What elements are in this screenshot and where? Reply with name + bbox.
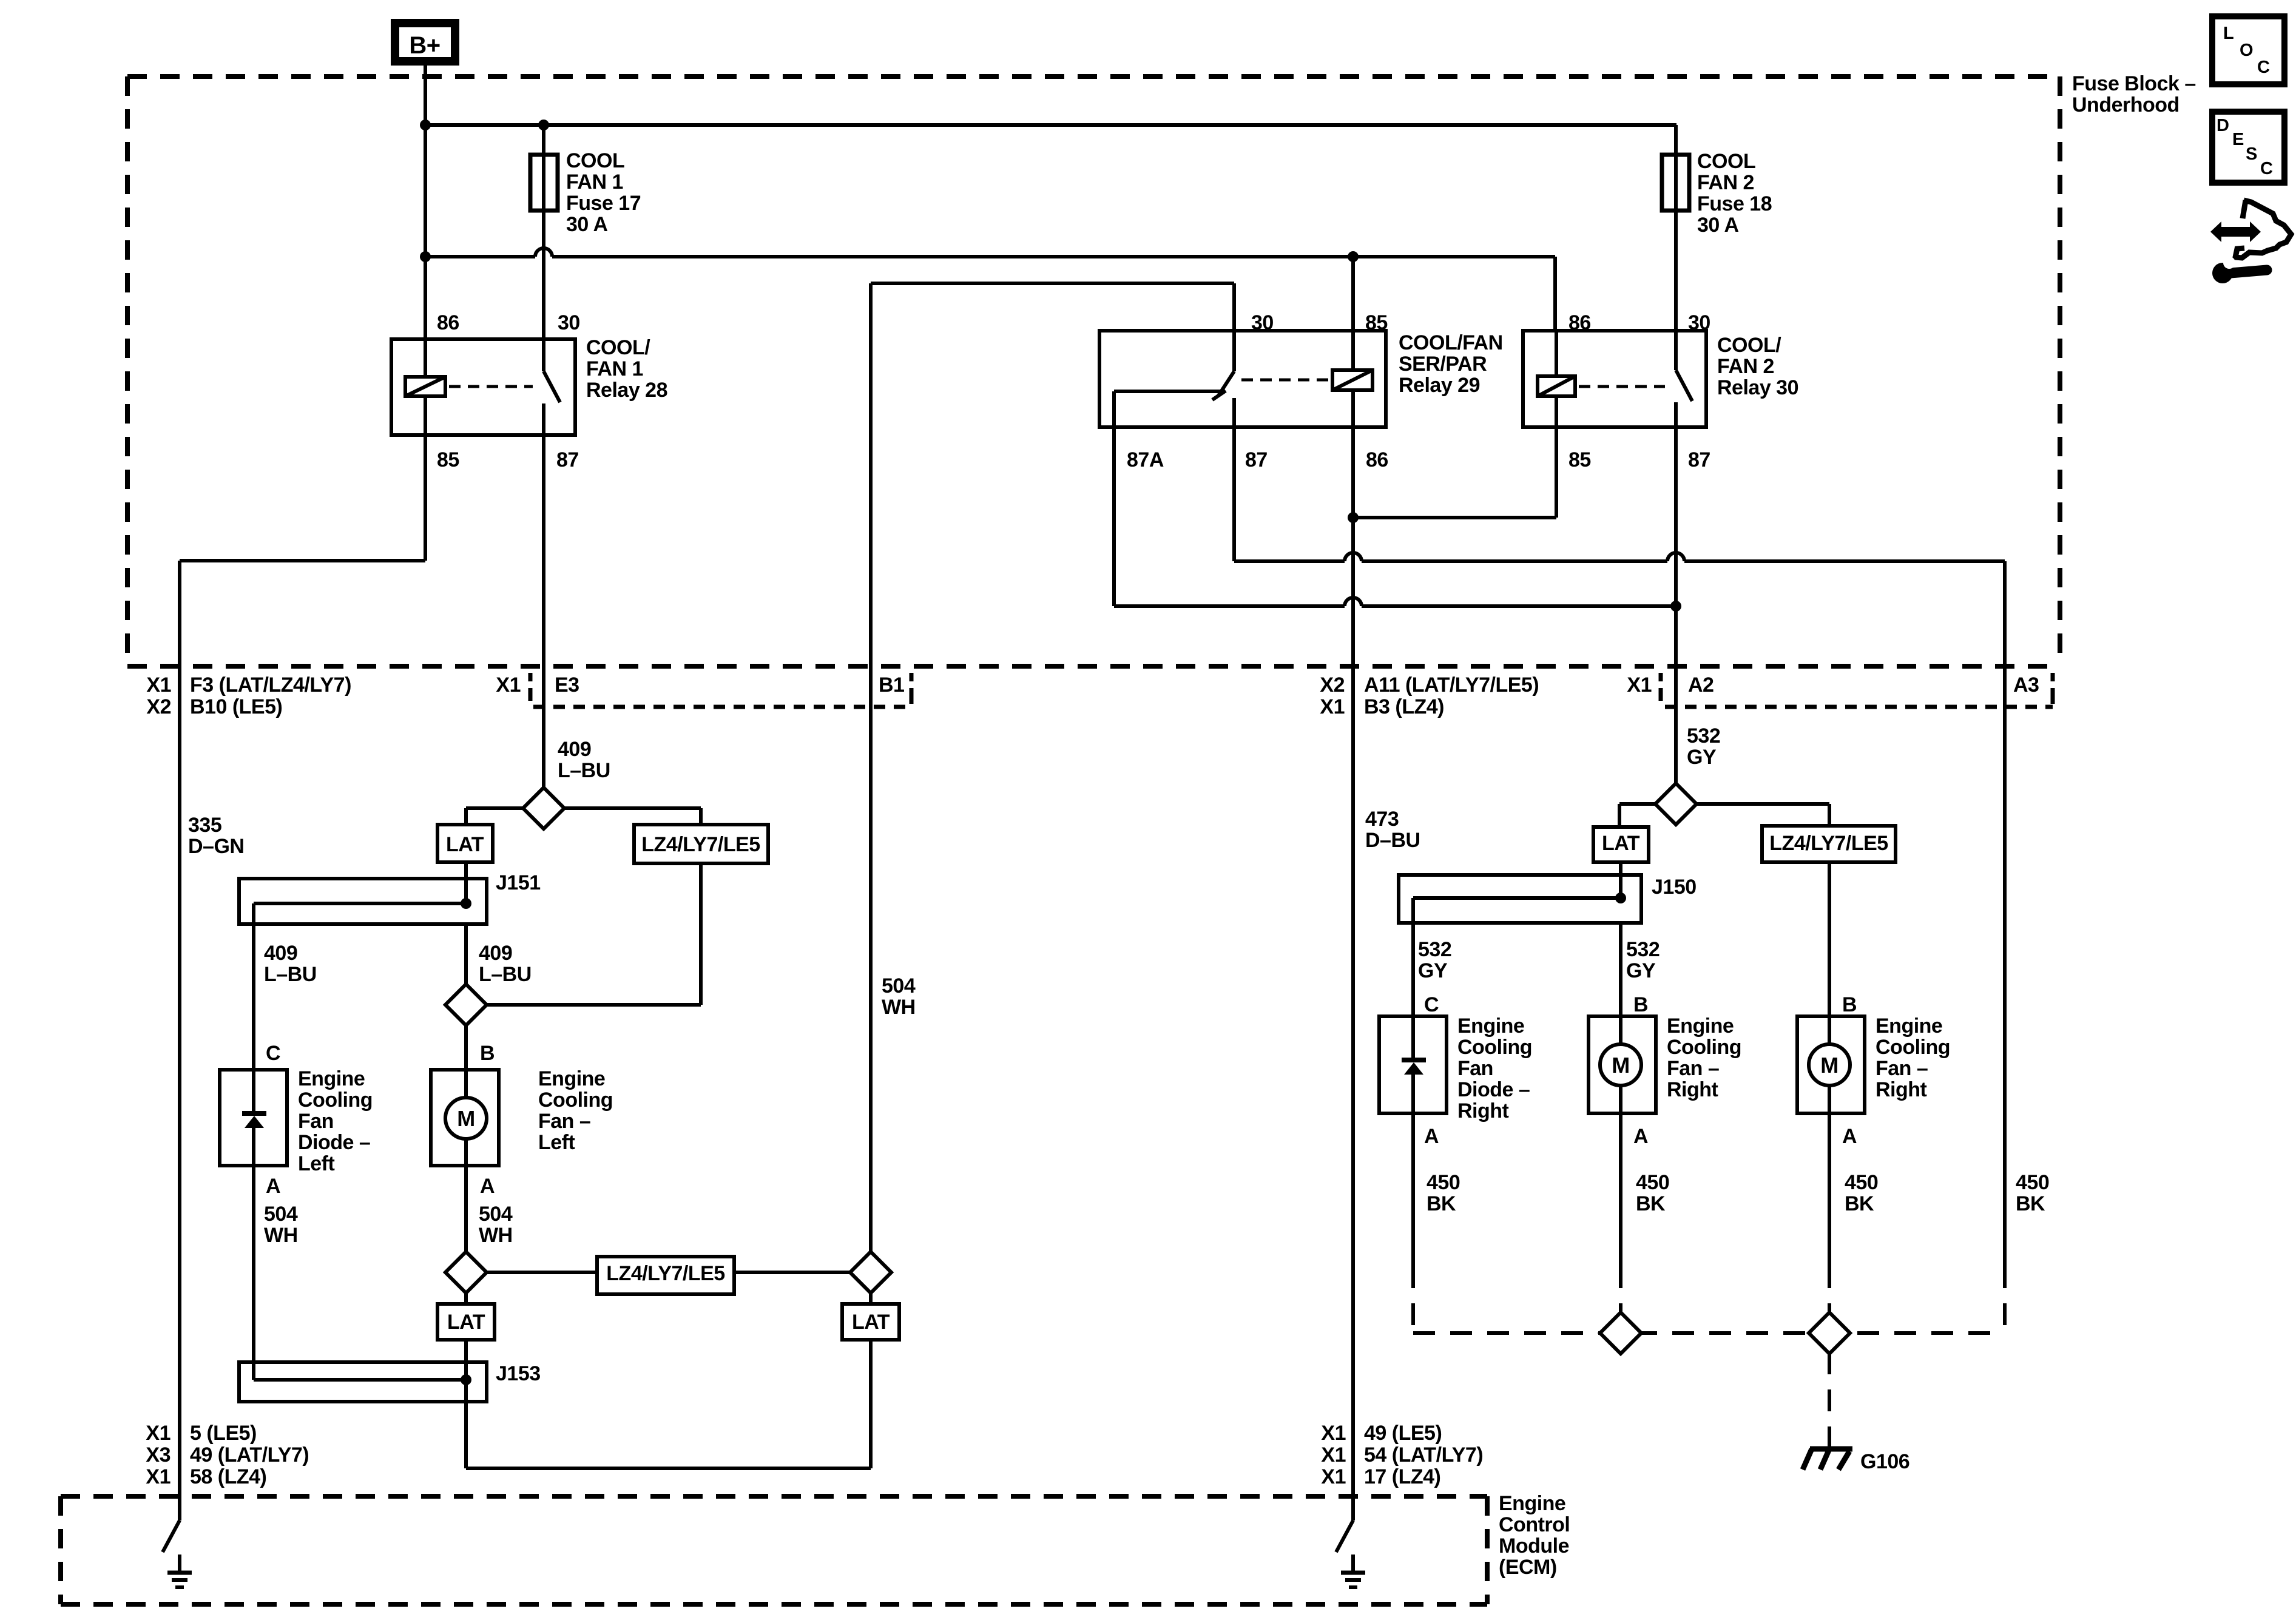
svg-text:COOL: COOL — [566, 149, 624, 172]
svg-text:D: D — [2217, 116, 2229, 135]
label: wire 335 D-GN — [188, 814, 244, 858]
wire: ECM right input (A11/B3) — [1351, 666, 1355, 1521]
label: diode right pin A — [1424, 1125, 1439, 1148]
wire: motor right 2 A down (solid then hidden) — [1828, 1113, 1831, 1314]
svg-text:450: 450 — [2016, 1171, 2049, 1194]
svg-text:BK: BK — [1427, 1192, 1456, 1215]
svg-text:Fan: Fan — [1457, 1057, 1493, 1080]
wire: S4 down to LAT box (lower right) — [869, 1292, 873, 1304]
wire: B1 feed to relay 29 pin 30 (horizontal + both drops) — [871, 283, 1234, 666]
svg-text:O: O — [2240, 41, 2253, 60]
relay 30 coil — [1538, 376, 1575, 396]
junction: relay 29 pin 85 tap — [1348, 251, 1359, 262]
DESC reference box — [2212, 112, 2284, 183]
svg-text:Left: Left — [538, 1131, 575, 1154]
label: diode left pin A — [266, 1175, 280, 1198]
svg-text:409: 409 — [264, 942, 297, 965]
wire: LAT to J153 — [464, 1340, 468, 1362]
wire: fuse 18 output down to relay 30 pin 30 — [1674, 211, 1678, 331]
LOC reference box — [2212, 16, 2284, 84]
wire: diode left A down to J153 — [252, 1166, 255, 1380]
label: motor right 2 pin B — [1842, 993, 1857, 1016]
label: motor right 1 pin B — [1633, 993, 1648, 1016]
label: relay 29 pin 85 — [1365, 311, 1388, 334]
svg-text:Fuse Block –: Fuse Block – — [2072, 72, 2196, 95]
label: motor left name — [538, 1067, 613, 1154]
svg-text:Engine: Engine — [538, 1067, 605, 1090]
label: fuse 18 — [1697, 150, 1772, 237]
connector label: X1 | A2 — [1627, 673, 1714, 701]
label: wire 409 L-BU (left of J151) — [264, 942, 317, 986]
diode D2 (Engine Cooling Fan Diode - Right) — [1379, 1016, 1447, 1113]
svg-text:Relay 29: Relay 29 — [1399, 374, 1480, 397]
svg-text:B10 (LE5): B10 (LE5) — [190, 695, 282, 718]
svg-text:532: 532 — [1687, 724, 1720, 748]
label: relay 29 pin 87A — [1127, 448, 1164, 471]
wire: relay 28 pin 87 down to connector E3 — [542, 435, 545, 666]
svg-text:A11 (LAT/LY7/LE5): A11 (LAT/LY7/LE5) — [1364, 673, 1539, 697]
svg-text:BK: BK — [2016, 1192, 2045, 1215]
splice S3 (504 WH left) — [445, 1252, 487, 1293]
svg-text:X1: X1 — [496, 673, 521, 697]
splice S2 (409 to LZ4 engines) — [445, 984, 487, 1025]
svg-text:Diode –: Diode – — [1457, 1078, 1530, 1101]
svg-text:COOL: COOL — [1697, 150, 1755, 173]
svg-text:335: 335 — [188, 814, 221, 837]
svg-text:X1: X1 — [1321, 1443, 1346, 1467]
junction: fuse 17 tap — [538, 120, 549, 130]
svg-text:85: 85 — [1365, 311, 1388, 334]
connector extent line X1 (E3..B1) — [533, 673, 911, 707]
svg-text:Underhood: Underhood — [2072, 93, 2180, 116]
svg-text:54 (LAT/LY7): 54 (LAT/LY7) — [1364, 1443, 1483, 1467]
option box: LAT (left upper) — [437, 825, 493, 862]
svg-text:B+: B+ — [409, 32, 440, 59]
wire: J151 through output down to splice S2 — [464, 924, 468, 985]
fuse block boundary - dashed box (Fuse Block - Underhood) — [127, 76, 2060, 666]
wire: motor left A down to splice S3 — [464, 1166, 468, 1253]
label: diode left pin C — [266, 1042, 280, 1065]
wire: LAT box down to J151 — [464, 862, 468, 879]
label: wire 450 BK (far right) — [2016, 1171, 2049, 1215]
svg-text:X2: X2 — [146, 695, 171, 718]
svg-text:532: 532 — [1418, 938, 1451, 961]
power terminal B+ — [395, 23, 455, 61]
label: wire 450 BK (diode right) — [1427, 1171, 1460, 1215]
svg-text:B1: B1 — [879, 673, 904, 697]
label: wire 450 BK (motor right 2) — [1845, 1171, 1878, 1215]
splice S4 (504 WH right / B1) — [850, 1252, 891, 1293]
label: diode right name — [1457, 1014, 1532, 1122]
label: wire 450 BK (motor right 1) — [1636, 1171, 1669, 1215]
label: wire 532 GY (below A2) — [1687, 724, 1720, 769]
svg-text:X1: X1 — [1321, 1422, 1346, 1445]
relay 28 switch (pin30 stub + open blade + pin87 stub) — [544, 339, 560, 435]
label: motor left pin A — [480, 1175, 495, 1198]
label: wire 473 D-BU — [1365, 808, 1420, 852]
svg-text:C: C — [1424, 993, 1439, 1016]
svg-text:Cooling: Cooling — [1876, 1036, 1950, 1059]
relay 29 coil — [1332, 370, 1373, 390]
connector label: B1 — [879, 673, 904, 697]
label: fuse 17 — [566, 149, 641, 236]
label: wire 532 GY (right of J150) — [1626, 938, 1660, 982]
svg-text:(ECM): (ECM) — [1499, 1556, 1557, 1579]
ECM boundary (dashed box) — [61, 1496, 1487, 1604]
svg-text:GY: GY — [1418, 959, 1448, 982]
svg-text:87: 87 — [556, 448, 579, 471]
wire: splice S1 right branch to LZ4/LY7/LE5 box — [564, 808, 701, 825]
label: relay 28 name — [586, 336, 667, 402]
wire: splice S1 left branch to LAT box — [466, 808, 523, 825]
svg-text:LAT: LAT — [852, 1311, 890, 1334]
wire: top bus to fuse 18 (B+ feed) — [425, 125, 1676, 155]
svg-text:A3: A3 — [2013, 673, 2039, 697]
wire: LZ4 box to S4 — [734, 1271, 851, 1274]
junction block J151 — [239, 879, 487, 924]
label: J150 — [1652, 876, 1697, 899]
svg-text:B: B — [1633, 993, 1648, 1016]
svg-text:X1: X1 — [1320, 695, 1345, 718]
svg-text:LZ4/LY7/LE5: LZ4/LY7/LE5 — [641, 833, 760, 856]
svg-text:COOL/FAN: COOL/FAN — [1399, 331, 1503, 354]
svg-text:58 (LZ4): 58 (LZ4) — [190, 1465, 266, 1488]
svg-text:L–BU: L–BU — [558, 759, 610, 782]
relay K28 (COOL/FAN 1 Relay 28) box — [391, 339, 575, 435]
wire: relay 30 pin 87 down to connector A2 — [1674, 427, 1678, 666]
svg-text:504: 504 — [264, 1203, 298, 1226]
relay K30 (COOL/FAN 2 Relay 30) box — [1523, 331, 1706, 427]
label: wire 504 WH (motor left) — [479, 1203, 513, 1247]
svg-text:87: 87 — [1245, 448, 1268, 471]
svg-text:86: 86 — [1568, 311, 1591, 334]
svg-text:L–BU: L–BU — [264, 963, 317, 986]
wire: S7 down to G106 (hidden) — [1828, 1352, 1831, 1448]
connector label: X1/X2 F3/B10 (left, 335 D-GN wire) — [146, 673, 351, 718]
option box: LZ4/LY7/LE5 (right) — [1762, 826, 1896, 862]
svg-text:WH: WH — [882, 996, 916, 1019]
wire: J150 left output down to diode right C — [1411, 923, 1415, 1016]
label: wire 504 WH (B1 drop) — [882, 974, 916, 1019]
svg-text:LAT: LAT — [446, 833, 484, 856]
label: wire 409 L-BU (right of J151) — [479, 942, 532, 986]
svg-text:5 (LE5): 5 (LE5) — [190, 1422, 257, 1445]
svg-text:X3: X3 — [146, 1443, 171, 1467]
connector extent line X1 (A2..A3) — [1665, 673, 2053, 707]
diode D1 (Engine Cooling Fan Diode - Left) — [220, 1070, 287, 1166]
svg-text:F3 (LAT/LZ4/LY7): F3 (LAT/LZ4/LY7) — [190, 673, 351, 697]
splice S1 (409 L-BU) — [523, 788, 564, 829]
wire: hidden ground bus (dashed) — [1413, 1331, 2005, 1335]
svg-text:X1: X1 — [146, 673, 171, 697]
label: relay 29 pin 87 — [1245, 448, 1268, 471]
motor M1 (Engine Cooling Fan - Left) — [431, 1070, 499, 1166]
relay 30 switch (pin30 stub + open blade + pin87 stub) — [1676, 331, 1692, 427]
svg-text:Right: Right — [1457, 1099, 1509, 1122]
svg-text:BK: BK — [1636, 1192, 1666, 1215]
label: relay 29 name — [1399, 331, 1503, 397]
wire: relay 28 pin 85 to ECM drop (335 D-GN) — [180, 435, 425, 1521]
svg-text:J151: J151 — [496, 871, 541, 894]
label: G106 — [1860, 1450, 1909, 1473]
svg-text:Relay 30: Relay 30 — [1717, 376, 1798, 399]
wire: far right 450 BK down (solid then hidden) — [2003, 1266, 2007, 1333]
wire: LZ4 box down to motor right 2 — [1828, 862, 1831, 1016]
relay 29 87A contact path — [1114, 391, 1222, 427]
svg-text:SER/PAR: SER/PAR — [1399, 353, 1487, 376]
svg-text:X1: X1 — [146, 1465, 171, 1488]
svg-text:532: 532 — [1626, 938, 1660, 961]
connector label: X2/X1 A11/B3 (relay29 pin86 wire) — [1320, 673, 1539, 718]
svg-text:C: C — [2257, 58, 2270, 77]
connector label: ECM right pins X1/X1/X1 49/54/17 — [1321, 1422, 1483, 1488]
svg-text:FAN 1: FAN 1 — [586, 357, 643, 380]
fuse F18 (COOL FAN 2 Fuse 18 30A) — [1662, 155, 1689, 211]
svg-text:L: L — [2223, 24, 2234, 43]
junction: 87A joins relay30 pin87 wire — [1670, 601, 1681, 612]
svg-text:WH: WH — [479, 1224, 513, 1247]
wire: J151 left output down to diode C — [252, 924, 255, 1070]
label: J151 — [496, 871, 541, 894]
wire: splice S2 right branch up to LZ4/LY7/LE5 box — [487, 863, 701, 1005]
svg-text:LAT: LAT — [1602, 832, 1640, 855]
splice S6 (ground bus / motor right 1) — [1600, 1312, 1641, 1354]
svg-text:473: 473 — [1365, 808, 1399, 831]
svg-text:Diode –: Diode – — [298, 1131, 370, 1154]
label: wire 409 L-BU (below E3) — [558, 738, 610, 782]
svg-text:Fuse 18: Fuse 18 — [1697, 192, 1772, 215]
svg-text:LAT: LAT — [447, 1311, 485, 1334]
wire: LAT down to J150 — [1619, 862, 1622, 875]
svg-text:FAN 2: FAN 2 — [1697, 171, 1754, 194]
label: relay 30 pin 85 — [1568, 448, 1591, 471]
relay 28 coil — [405, 377, 445, 396]
label: relay 29 pin 86 — [1366, 448, 1388, 471]
svg-text:450: 450 — [1427, 1171, 1460, 1194]
svg-text:Cooling: Cooling — [298, 1089, 373, 1112]
junction block J153 — [239, 1362, 487, 1402]
junction: B+ bus lower — [420, 251, 431, 262]
label: relay 30 pin 30 — [1688, 311, 1710, 334]
wire: motor right 1 A down (solid then hidden) — [1619, 1113, 1622, 1314]
svg-text:E3: E3 — [555, 673, 579, 697]
ECM internal switch + ground (left, 335 D-GN) — [163, 1521, 192, 1587]
label: J153 — [496, 1362, 541, 1385]
ground G106 (chassis ground) — [1803, 1449, 1852, 1470]
wire: B+ terminal down to relay 28 coil (pin 86 feed) — [424, 61, 427, 339]
wire: diode right A down (solid then hidden) — [1411, 1113, 1415, 1333]
splice S5 (532 GY) — [1655, 783, 1697, 825]
label: Engine Control Module (ECM) — [1499, 1492, 1570, 1579]
connector label: ECM left pins X1/X3/X1 5/49/58 — [146, 1422, 309, 1488]
svg-text:X1: X1 — [146, 1422, 171, 1445]
svg-text:WH: WH — [264, 1224, 298, 1247]
svg-text:504: 504 — [882, 974, 916, 998]
splice S7 (ground bus / motor right 2 / G106) — [1809, 1312, 1850, 1354]
svg-text:Cooling: Cooling — [538, 1089, 613, 1112]
wire: relay 28 coil stubs — [424, 339, 427, 435]
wire: relay 29 pin 87A to relay 30 pin 87 — [1114, 427, 1676, 606]
wire: fuse 17 input — [542, 125, 545, 157]
wire: S3 down to LAT box (lower left) — [464, 1292, 468, 1304]
svg-text:L–BU: L–BU — [479, 963, 532, 986]
label: motor right 1 pin A — [1633, 1125, 1648, 1148]
svg-text:Fan –: Fan – — [1667, 1057, 1719, 1080]
label: relay 28 pin 87 — [556, 448, 579, 471]
svg-text:409: 409 — [558, 738, 591, 761]
svg-text:Engine: Engine — [1457, 1014, 1524, 1038]
svg-text:D–BU: D–BU — [1365, 829, 1420, 852]
wire: S5 left branch to LAT box — [1619, 804, 1656, 827]
wire: fuse 17 output down to relay 28 pin 30 — [542, 211, 545, 339]
svg-text:85: 85 — [1568, 448, 1591, 471]
svg-text:M: M — [1820, 1053, 1838, 1078]
wire: relay 30 pin 85 to relay 29 pin 86 — [1353, 427, 1556, 518]
svg-text:GY: GY — [1626, 959, 1656, 982]
svg-text:87: 87 — [1688, 448, 1710, 471]
wire: S5 right branch to LZ4/LY7/LE5 box — [1696, 804, 1829, 826]
label: relay 30 pin 87 — [1688, 448, 1710, 471]
svg-text:85: 85 — [437, 448, 459, 471]
svg-text:30 A: 30 A — [566, 213, 608, 236]
svg-text:Fan –: Fan – — [1876, 1057, 1928, 1080]
svg-text:X1: X1 — [1321, 1465, 1346, 1488]
svg-text:LZ4/LY7/LE5: LZ4/LY7/LE5 — [1769, 832, 1888, 855]
label: motor right 2 pin A — [1842, 1125, 1857, 1148]
svg-text:C: C — [266, 1042, 280, 1065]
svg-text:C: C — [2260, 159, 2273, 178]
svg-text:Engine: Engine — [1667, 1014, 1734, 1038]
svg-text:Left: Left — [298, 1152, 335, 1175]
svg-text:17 (LZ4): 17 (LZ4) — [1364, 1465, 1440, 1488]
option box: LZ4/LY7/LE5 (left upper) — [634, 825, 768, 863]
label: motor right 2 name — [1876, 1014, 1950, 1101]
wire: 409 L-BU connector to splice — [542, 666, 545, 789]
relay 29 actuation dashed line — [1241, 379, 1329, 382]
svg-text:A: A — [1633, 1125, 1648, 1148]
svg-text:49 (LAT/LY7): 49 (LAT/LY7) — [190, 1443, 309, 1467]
junction: relay29 pin86 / relay30 pin85 — [1348, 512, 1359, 523]
svg-text:Engine: Engine — [1499, 1492, 1565, 1515]
svg-text:Cooling: Cooling — [1457, 1036, 1532, 1059]
svg-text:504: 504 — [479, 1203, 513, 1226]
svg-text:LZ4/LY7/LE5: LZ4/LY7/LE5 — [606, 1262, 724, 1285]
svg-text:A: A — [1842, 1125, 1857, 1148]
svg-text:B: B — [1842, 993, 1857, 1016]
svg-text:FAN 2: FAN 2 — [1717, 355, 1774, 378]
svg-text:B3 (LZ4): B3 (LZ4) — [1364, 695, 1444, 718]
wire: J150 through down to motor right 1 — [1619, 923, 1622, 1016]
svg-text:BK: BK — [1845, 1192, 1874, 1215]
svg-text:Fan: Fan — [298, 1110, 334, 1133]
svg-text:Module: Module — [1499, 1534, 1569, 1558]
connector label: A3 — [2013, 673, 2039, 697]
label: motor right 1 name — [1667, 1014, 1741, 1101]
svg-text:E: E — [2232, 130, 2244, 149]
svg-text:D–GN: D–GN — [188, 835, 244, 858]
svg-text:30: 30 — [1688, 311, 1710, 334]
svg-text:M: M — [1612, 1053, 1630, 1078]
svg-text:87A: 87A — [1127, 448, 1164, 471]
svg-text:S: S — [2246, 144, 2257, 164]
ECM internal switch + ground (right) — [1336, 1521, 1365, 1587]
svg-text:Control: Control — [1499, 1513, 1570, 1536]
svg-text:A: A — [266, 1175, 280, 1198]
label: wire 532 GY (left of J150) — [1418, 938, 1451, 982]
svg-text:A: A — [1424, 1125, 1439, 1148]
label: relay 30 name — [1717, 334, 1798, 399]
service manual icon (arrow / component / wrench) — [2210, 200, 2291, 283]
svg-text:Right: Right — [1876, 1078, 1927, 1101]
relay 30 actuation dashed line — [1579, 385, 1665, 388]
svg-text:Engine: Engine — [1876, 1014, 1942, 1038]
svg-text:A: A — [480, 1175, 495, 1198]
svg-text:49 (LE5): 49 (LE5) — [1364, 1422, 1442, 1445]
svg-text:Cooling: Cooling — [1667, 1036, 1741, 1059]
motor M3 (Engine Cooling Fan - Right 2) — [1797, 1016, 1865, 1113]
fuse F17 (COOL FAN 1 Fuse 17 30A) — [530, 155, 558, 211]
svg-text:Relay 28: Relay 28 — [586, 379, 667, 402]
svg-text:COOL/: COOL/ — [1717, 334, 1781, 357]
svg-text:Engine: Engine — [298, 1067, 365, 1090]
svg-text:Fuse 17: Fuse 17 — [566, 192, 641, 215]
svg-text:30: 30 — [1251, 311, 1274, 334]
junction: B+ bus upper — [420, 120, 431, 130]
relay 28 actuation dashed line — [449, 385, 533, 388]
relay 29 switch (pin30 stub + blade closed to 87A + pin87 stub) — [1212, 331, 1234, 427]
junction block J150 — [1399, 875, 1641, 923]
label: relay 28 pin 86 — [437, 311, 459, 334]
svg-text:450: 450 — [1636, 1171, 1669, 1194]
svg-text:J150: J150 — [1652, 876, 1697, 899]
option box: LAT (right) — [1593, 827, 1649, 862]
svg-text:Right: Right — [1667, 1078, 1718, 1101]
wire: relay 29 coil stubs — [1351, 331, 1355, 427]
label: wire 504 WH (diode left) — [264, 1203, 298, 1247]
wire: relay 29 pin 85 drop — [1351, 257, 1355, 331]
svg-text:Fan –: Fan – — [538, 1110, 590, 1133]
motor M2 (Engine Cooling Fan - Right) — [1589, 1016, 1656, 1113]
svg-text:30 A: 30 A — [1697, 214, 1739, 237]
label: relay 28 pin 85 — [437, 448, 459, 471]
connector label: X1 | E3 — [496, 673, 579, 701]
svg-text:COOL/: COOL/ — [586, 336, 650, 359]
label: Fuse Block - Underhood — [2072, 72, 2196, 116]
svg-text:X1: X1 — [1627, 673, 1652, 697]
svg-text:86: 86 — [437, 311, 459, 334]
wire: B1 down to splice S4 — [869, 666, 873, 1253]
svg-text:A2: A2 — [1688, 673, 1714, 697]
svg-text:G106: G106 — [1860, 1450, 1909, 1473]
label: relay 29 pin 30 — [1251, 311, 1274, 334]
wire: relay 30 coil stubs — [1555, 331, 1558, 427]
wire: relay 29 pin 87 across to far right (450 BK feed) — [1234, 427, 2005, 1266]
svg-text:450: 450 — [1845, 1171, 1878, 1194]
svg-text:GY: GY — [1687, 746, 1717, 769]
option box: LZ4/LY7/LE5 (lower) — [597, 1257, 734, 1294]
relay K29 (COOL/FAN SER/PAR Relay 29) box — [1099, 331, 1386, 427]
wire: second bus (B+ to relay29 pin85 / relay30 pin86) with hop over fuse17 wire — [425, 248, 1555, 331]
svg-text:X2: X2 — [1320, 673, 1345, 697]
label: relay 28 pin 30 — [558, 311, 580, 334]
wire: J153 through to lower right LAT (U path) — [466, 1340, 871, 1468]
wire: A2 down to splice S5 — [1674, 666, 1678, 785]
label: relay 30 pin 86 — [1568, 311, 1591, 334]
wire: splice S2 down to motor left pin B — [464, 1025, 468, 1070]
svg-text:FAN 1: FAN 1 — [566, 170, 623, 194]
svg-text:86: 86 — [1366, 448, 1388, 471]
svg-text:30: 30 — [558, 311, 580, 334]
